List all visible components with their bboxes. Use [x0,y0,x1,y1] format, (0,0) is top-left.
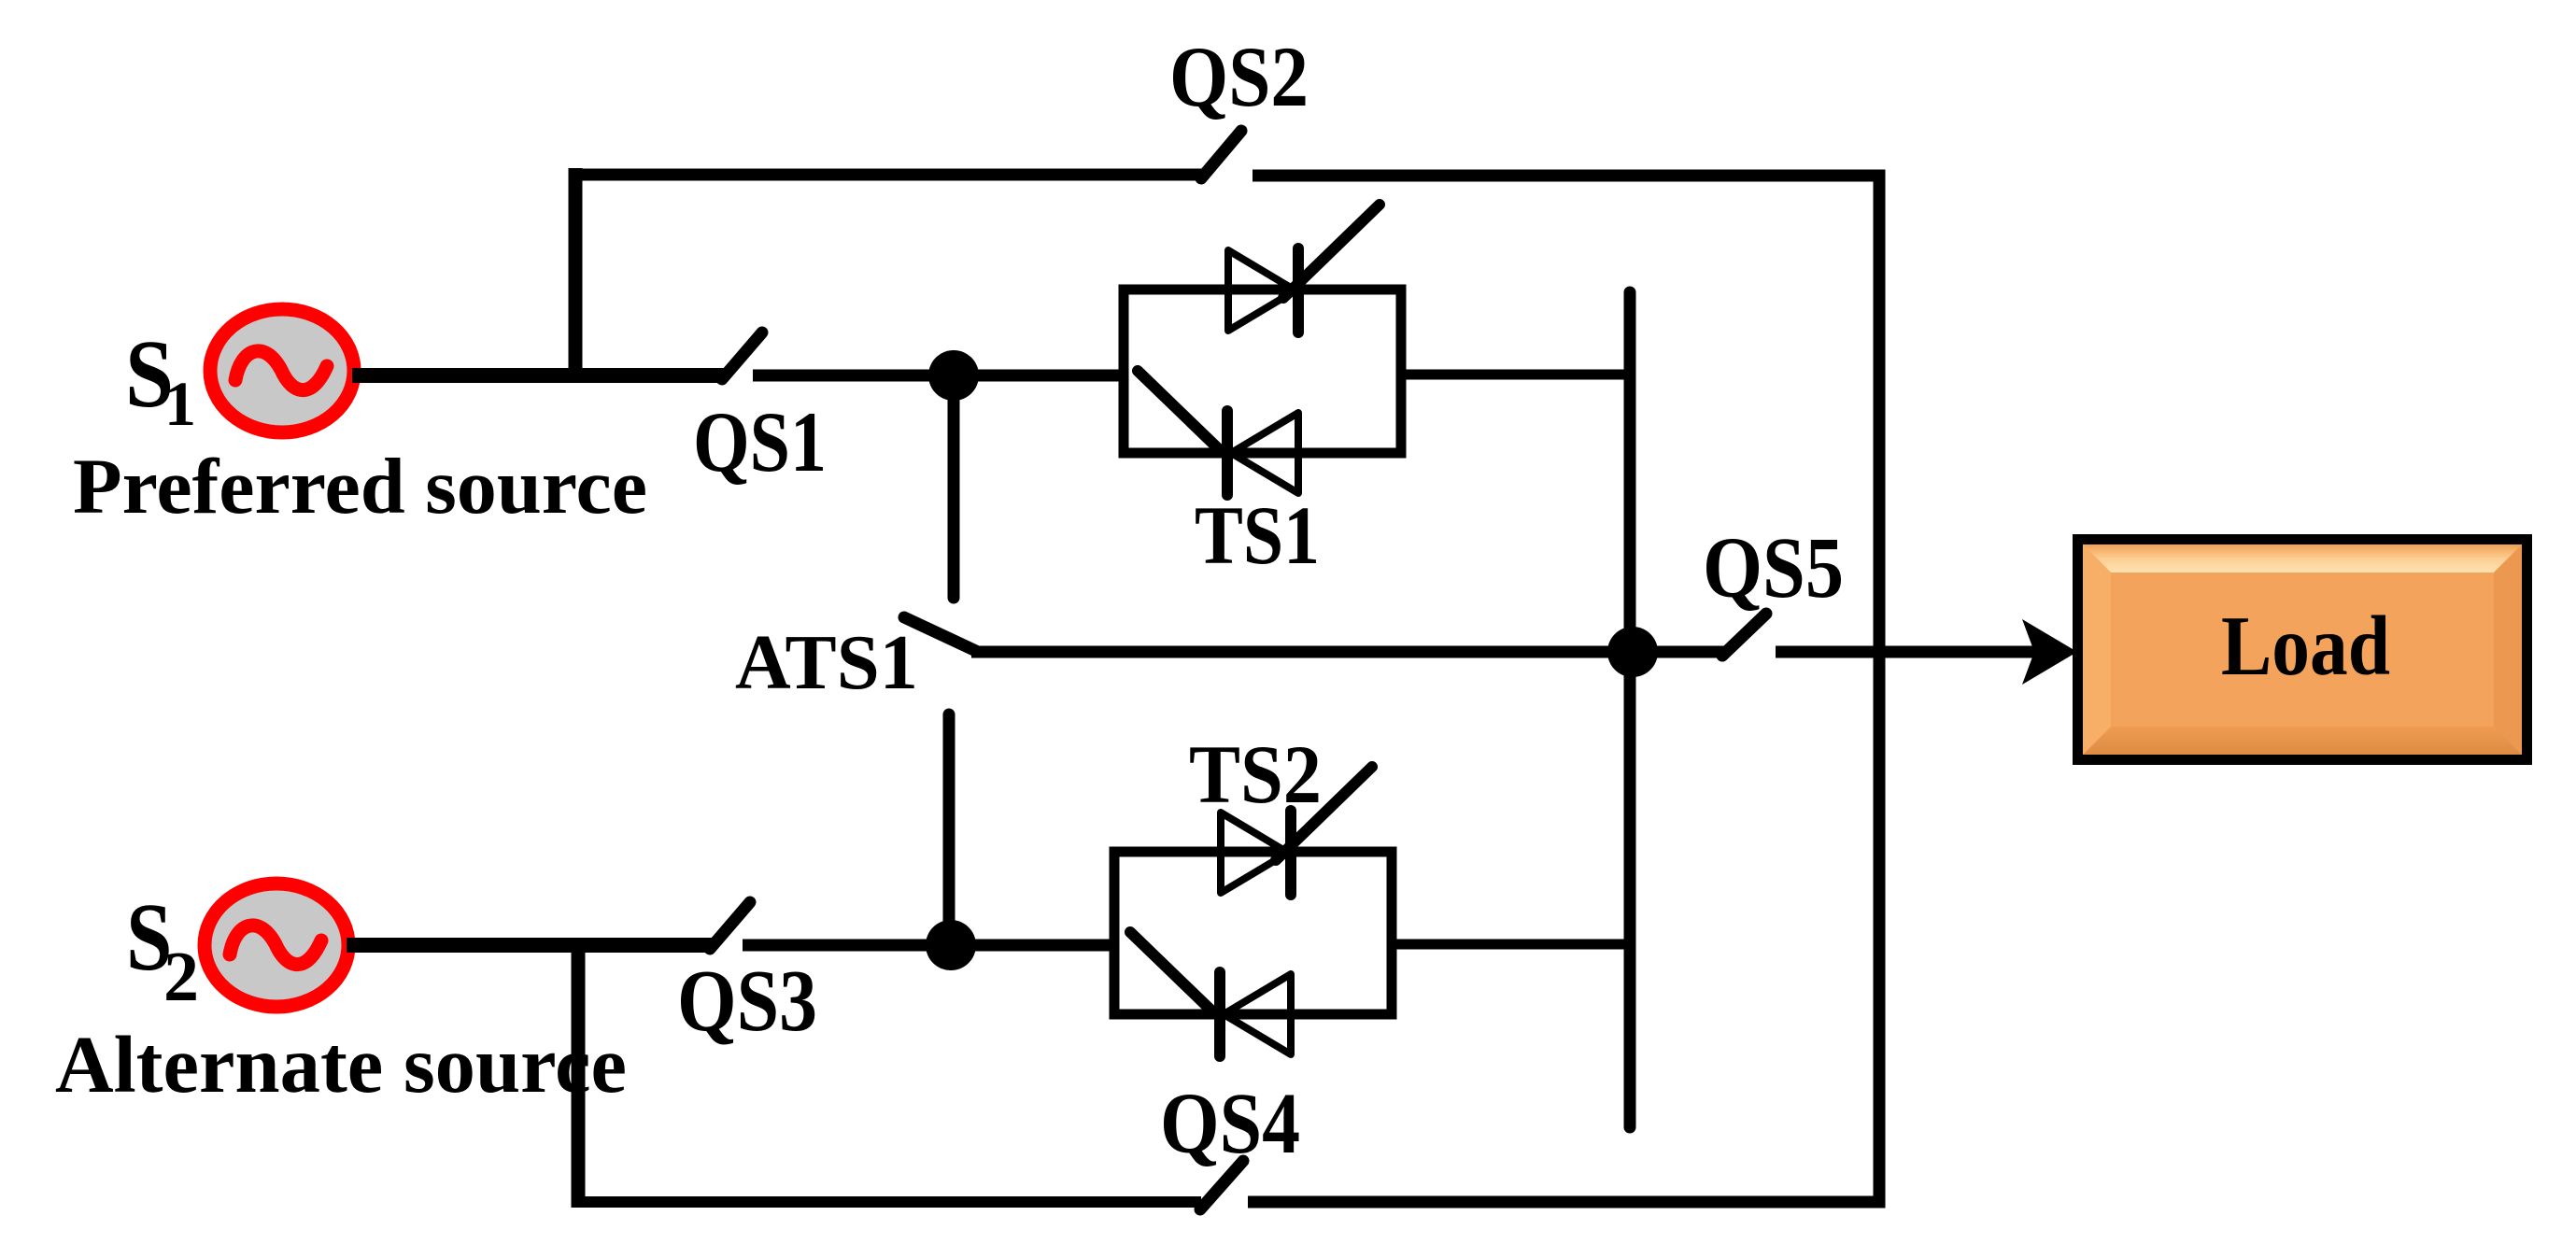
node junction load bus [1607,627,1658,677]
switch QS5 blade [1722,614,1766,656]
wire middle to node [971,646,1726,658]
svg-text:Preferred source: Preferred source [73,443,647,530]
wire QS3 to TS2 box [743,940,1114,952]
svg-text:TS1: TS1 [1195,490,1320,582]
svg-text:Load: Load [2221,599,2390,693]
svg-text:1: 1 [164,368,196,439]
load box [2073,534,2532,765]
svg-text:QS4: QS4 [1160,1076,1300,1172]
svg-text:Alternate source: Alternate source [55,1019,627,1110]
svg-text:QS3: QS3 [677,953,817,1050]
thyristor TS1 lower SCR [1138,371,1298,495]
svg-text:QS1: QS1 [693,394,827,489]
svg-text:QS2: QS2 [1169,29,1309,124]
wire QS1 to TS1 box [753,370,1124,382]
thyristor TS2 upper SCR [1221,767,1372,895]
thyristor box TS1 [1124,290,1401,453]
node junction S1 [928,350,979,401]
svg-text:ATS1: ATS1 [735,619,918,706]
switch QS3 blade [710,902,750,949]
thyristor box TS2 [1114,852,1392,1014]
switch ATS1 upper contact wire [948,375,960,598]
svg-text:2: 2 [163,938,199,1016]
source S1 [210,309,354,432]
label S2 [126,884,172,991]
switch QS2 blade [1201,131,1241,178]
thyristor TS2 lower SCR [1130,932,1291,1056]
wire branch S1 up to top bus [569,168,583,383]
wire S1 to QS1 [352,368,724,383]
label S1 [125,321,174,429]
wire branch S2 down to bottom bus [572,939,586,1208]
wire QS2 to right corner down to bottom [1248,176,1879,1202]
node junction S2 [926,920,976,970]
svg-text:TS2: TS2 [1189,729,1322,821]
arrowhead to load [2022,619,2077,685]
wire QS5 to load arrow [1776,646,2036,658]
source S2 [205,884,348,1007]
thyristor TS1 upper SCR [1228,205,1380,332]
bus vertical line [1624,292,1636,1127]
switch QS4 blade [1200,1161,1243,1209]
switch ATS1 lower contact wire [943,714,955,945]
switch ATS1 blade [904,617,978,652]
switch QS1 blade [722,332,762,379]
svg-text:QS5: QS5 [1703,520,1844,616]
wire TS2 to bus [1392,940,1630,950]
wire S2 to QS3 [347,938,712,953]
wire TS1 to bus [1401,370,1630,380]
